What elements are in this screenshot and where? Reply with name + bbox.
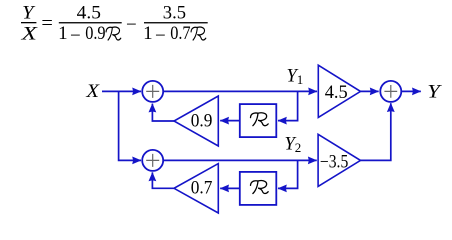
svg-text:1: 1	[143, 23, 153, 44]
svg-text:0.9: 0.9	[191, 111, 213, 131]
svg-text:=: =	[41, 13, 53, 34]
amp 0.9 triangle (points left)	[174, 96, 218, 146]
wire X to summer S1	[102, 90, 141, 92]
amp -3.5 triangle	[318, 134, 360, 186]
svg-text:3.5: 3.5	[163, 2, 186, 23]
box R2 (delay operator)	[240, 172, 276, 205]
wire tap Y2 down to box R2	[278, 160, 298, 188]
wire summer S1 to amp 4.5	[163, 90, 317, 92]
fraction bar 2	[144, 22, 208, 23]
svg-text:4.5: 4.5	[325, 83, 348, 103]
wire amp 0.7 output up to summer S2	[152, 172, 174, 188]
svg-text:Y1: Y1	[287, 67, 304, 88]
summer S1	[142, 81, 163, 102]
box R1 (delay operator)	[240, 104, 276, 137]
svg-text:−: −	[155, 26, 166, 47]
svg-text:Y: Y	[22, 3, 36, 24]
svg-text:1: 1	[58, 23, 68, 44]
fraction bar 1	[59, 22, 122, 23]
svg-text:−: −	[70, 26, 81, 47]
wire summer S3 to Y	[402, 90, 421, 92]
amp 0.7 triangle (points left)	[174, 164, 218, 213]
svg-text:−: −	[126, 14, 137, 35]
svg-text:Y: Y	[427, 82, 442, 102]
svg-text:4.5: 4.5	[77, 2, 101, 23]
wire branch down from X line to summer S2	[119, 91, 141, 160]
svg-text:0.9: 0.9	[85, 23, 105, 44]
svg-text:Y2: Y2	[285, 134, 302, 155]
wire box R1 to amp 0.9	[220, 120, 240, 122]
summer S3	[380, 81, 401, 102]
wire summer S2 to amp -3.5	[163, 159, 317, 161]
svg-text:0.7: 0.7	[191, 179, 213, 199]
svg-text:−3.5: −3.5	[320, 152, 348, 172]
wire box R2 to amp 0.7	[220, 187, 240, 189]
wire amp 0.9 output up to summer S1	[152, 104, 174, 121]
amp 4.5 triangle	[318, 65, 360, 117]
svg-text:X: X	[20, 23, 38, 44]
svg-text:0.7: 0.7	[170, 23, 190, 44]
svg-text:X: X	[85, 82, 99, 102]
formula Y/X = 4.5/(1-0.9R) - 3.5/(1-0.7R)	[20, 2, 207, 46]
wire amp -3.5 output up to summer S3	[361, 103, 391, 160]
wire amp 4.5 to summer S3	[361, 90, 379, 92]
wire tap Y1 down to box R1	[278, 91, 298, 120]
summer S2	[142, 150, 163, 171]
